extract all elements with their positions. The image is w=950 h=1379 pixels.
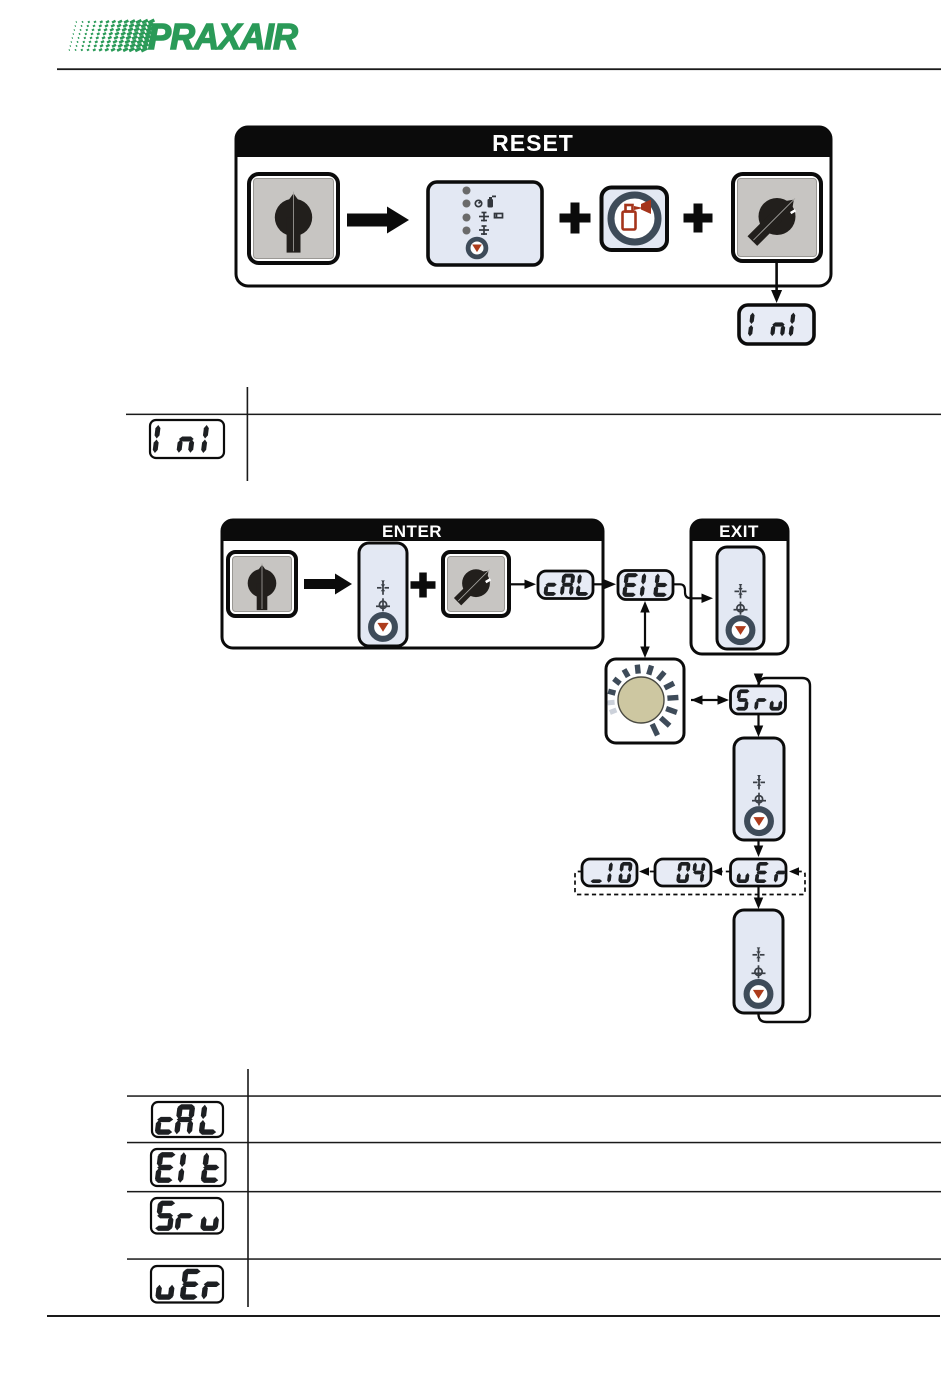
svg-text:PRAXAIR: PRAXAIR [148, 16, 298, 56]
dashed arrow 04 to _10 [639, 867, 654, 876]
plus 2 in RESET [684, 204, 713, 233]
svg-text:EXIT: EXIT [719, 522, 759, 541]
arrow vEr to panel4 [754, 886, 764, 909]
RESET title bar [236, 127, 831, 157]
table1 horizontal rule [126, 414, 941, 416]
table2 rule 2 [127, 1142, 941, 1144]
display InI in table row [150, 420, 224, 458]
table1 vertical rule [247, 387, 249, 481]
display vEr [731, 859, 787, 886]
knob switch (vertical) in ENTER [228, 552, 296, 616]
plus in ENTER [411, 573, 436, 598]
double arrow EIt-dial [640, 601, 650, 658]
dashed arrow vEr to 04 [712, 867, 730, 876]
double arrow dial-Sru [691, 695, 729, 705]
arrow knob to cAL [509, 580, 536, 590]
display Sru [731, 686, 786, 714]
dashed loop _10 back to vEr [575, 867, 805, 894]
svg-text:RESET: RESET [492, 130, 574, 156]
horn/gas-test button in RESET [602, 188, 668, 251]
table2 rule 1 [127, 1095, 941, 1097]
table display Sru [151, 1198, 223, 1234]
arrow cAL to EIt [593, 580, 616, 590]
EXIT title bar [691, 520, 788, 541]
arrow panel3 to vEr [754, 840, 764, 857]
control panel below Sru [734, 738, 784, 840]
footer rule [47, 1315, 940, 1317]
table display vEr [151, 1266, 223, 1303]
plus 1 in RESET [560, 203, 591, 234]
RESET box [236, 127, 831, 286]
display EIt [618, 571, 673, 600]
knob switch (vertical) in RESET [249, 174, 338, 263]
big arrow in RESET [347, 207, 409, 234]
ENTER box [222, 520, 603, 648]
drop arrow from knob to display [771, 261, 782, 303]
table2 rule 3 [127, 1191, 941, 1193]
header rule [57, 68, 941, 70]
control panel in EXIT [717, 547, 764, 649]
loop line panel4 to Sru [754, 674, 810, 1023]
ENTER title bar [222, 520, 603, 541]
knob switch (rotated) in RESET [733, 174, 821, 261]
table display cAL [152, 1102, 223, 1137]
curve EIt to EXIT panel [673, 584, 713, 603]
knob switch (rotated) in ENTER [443, 552, 509, 616]
display 04 [655, 859, 711, 886]
table2 rule 4 [127, 1258, 941, 1260]
display cAL [538, 571, 593, 599]
LED selection panel in RESET [428, 182, 542, 265]
table display EIt [151, 1149, 226, 1186]
display InI under RESET [739, 305, 814, 344]
logo flag pattern [69, 19, 156, 53]
EXIT box [691, 520, 788, 654]
svg-text:ENTER: ENTER [382, 522, 442, 541]
table2 vertical rule [247, 1069, 249, 1307]
control panel below vEr [734, 910, 783, 1013]
big arrow in ENTER [304, 574, 352, 595]
display _10 [582, 859, 637, 886]
arrow Sru to panel3 [754, 714, 764, 737]
encoder dial box [606, 659, 684, 743]
control panel in ENTER [359, 543, 407, 646]
